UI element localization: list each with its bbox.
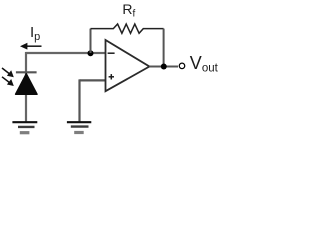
photodiode D1 body [16,74,37,94]
wire minus input (node to op-amp) [91,52,106,54]
ground left [12,122,37,133]
wire left vertical branch to photodiode [25,52,27,122]
label Vout [190,53,218,75]
wire feedback right vertical [163,29,165,67]
node B junction dot (output) [161,64,167,70]
node A junction dot (inverting input) [88,50,94,56]
op-amp plus sign [109,74,114,79]
op-amp minus sign [108,52,115,54]
photodiode D1 cathode bar [16,71,37,73]
wire noninverting input horizontal [80,79,106,81]
wire main horizontal (inverting input net) [26,52,91,54]
current arrow Ip [20,43,42,50]
ground right [67,122,91,132]
photodiode light arrow 1 [2,68,14,77]
op-amp U1 triangle [106,40,150,91]
wire output [149,66,178,68]
label Ip [30,24,40,43]
wire feedback left vertical [90,29,92,53]
photodiode light arrow 2 [2,77,14,86]
label Rf [122,1,135,20]
wire noninverting vertical to ground [78,79,80,121]
resistor Rf [91,24,164,33]
output terminal open circle [179,63,185,69]
